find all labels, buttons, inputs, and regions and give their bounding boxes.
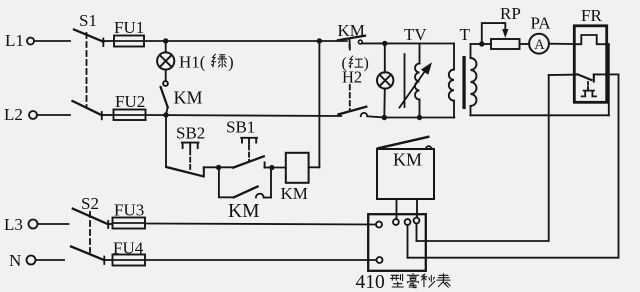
svg-text:KM: KM	[281, 184, 308, 203]
svg-text:FR: FR	[581, 6, 602, 25]
svg-text:N: N	[9, 251, 21, 270]
svg-text:FU3: FU3	[114, 201, 144, 220]
svg-text:L1: L1	[5, 31, 24, 50]
svg-text:L3: L3	[4, 215, 23, 234]
svg-text:KM: KM	[338, 21, 365, 40]
svg-text:KM: KM	[393, 150, 422, 170]
svg-text:H2: H2	[342, 68, 362, 87]
svg-text:H1(: H1(	[179, 53, 206, 72]
svg-text:FU4: FU4	[113, 239, 144, 258]
svg-text:FU1: FU1	[114, 18, 144, 37]
svg-text:TV: TV	[404, 25, 427, 44]
svg-text:PA: PA	[531, 14, 552, 33]
svg-text:KM: KM	[174, 88, 203, 108]
svg-text:L2: L2	[4, 105, 23, 124]
svg-text:SB2: SB2	[176, 124, 205, 143]
svg-text:410: 410	[356, 272, 385, 292]
svg-text:SB1: SB1	[226, 118, 255, 137]
svg-text:S1: S1	[79, 11, 97, 30]
svg-text:RP: RP	[500, 4, 521, 23]
svg-text:FU2: FU2	[115, 92, 145, 111]
svg-text:): )	[364, 55, 369, 72]
svg-text:T: T	[460, 25, 471, 44]
svg-text:A: A	[534, 37, 545, 53]
svg-text:S2: S2	[81, 194, 99, 213]
svg-text:): )	[228, 53, 234, 72]
svg-text:KM: KM	[228, 201, 259, 222]
